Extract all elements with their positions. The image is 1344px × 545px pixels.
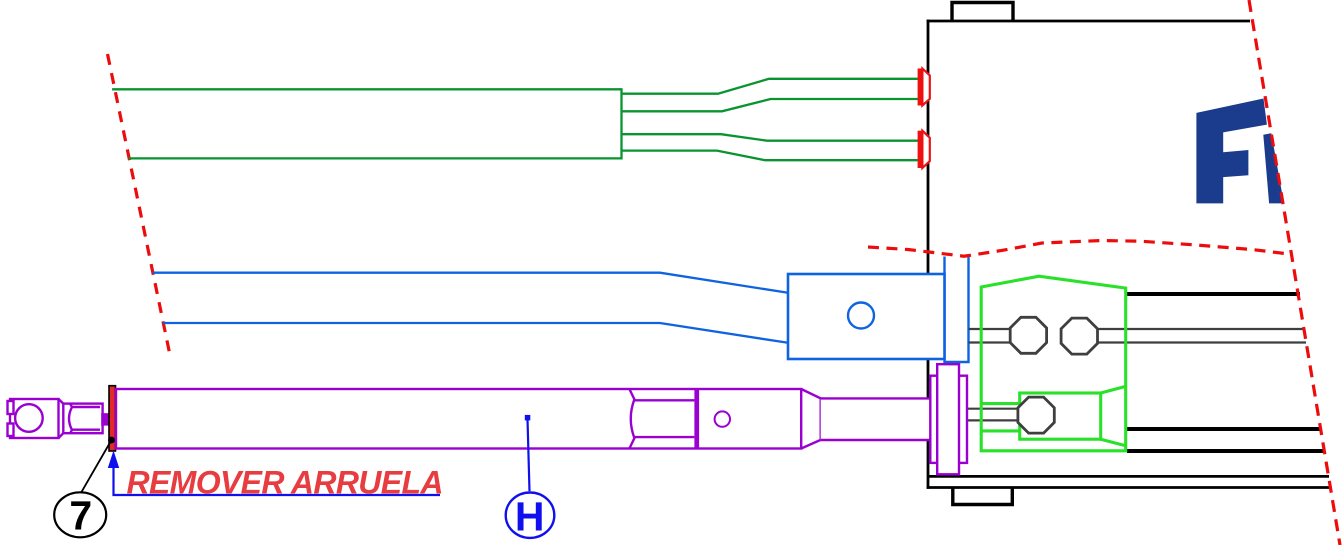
callout H leader dot (525, 415, 531, 421)
green harness cable body (112, 88, 621, 159)
green inner box (1020, 393, 1101, 439)
green funnel top (1101, 386, 1126, 393)
green channel line top (981, 402, 1020, 405)
taper section (801, 389, 821, 449)
svg-text:H: H (515, 493, 545, 539)
drive flange rear (930, 376, 967, 463)
wrench neck section (59, 399, 103, 438)
remover arruela arrow (108, 451, 119, 469)
FPT logo partial second letter (1263, 133, 1284, 203)
bottom mounting tab (953, 488, 1013, 505)
callout H balloon (506, 493, 555, 538)
top mounting tab (952, 3, 1013, 22)
green bracket outline (981, 276, 1125, 451)
wrench square drive stub (101, 413, 109, 425)
torque wrench clevis head (8, 399, 59, 438)
callout 7 leader dot (108, 437, 115, 444)
drive flange front (937, 364, 959, 474)
wrench main body (116, 389, 801, 449)
wire 2 (622, 99, 920, 111)
wire 3 (622, 134, 920, 141)
green channel line bottom (981, 429, 1020, 432)
blue cable top line (153, 273, 788, 293)
hole in blue box (848, 303, 874, 329)
blue cable bottom line (163, 323, 788, 343)
svg-text:7: 7 (69, 493, 92, 539)
left break line (red dashed cut line) (108, 54, 171, 357)
thick purple band (694, 389, 699, 449)
blue plate bracket (945, 255, 969, 363)
green funnel bottom (1101, 439, 1126, 446)
middle break line (red dashed wavy) (868, 241, 1292, 257)
connector terminal 1 (red) (918, 69, 930, 106)
gray rod upper (left segment) (969, 329, 1307, 343)
scale window lines (634, 399, 694, 401)
callout H leader line (528, 419, 530, 491)
callout 7 balloon (54, 492, 106, 537)
remover arruela leader (114, 466, 441, 495)
body brace curve (629, 389, 634, 449)
internal thick line middle (1127, 427, 1320, 431)
hex nut 1 (1010, 317, 1046, 353)
wire 4 (622, 151, 920, 161)
blue junction box (788, 274, 945, 359)
wire 1 (622, 79, 920, 94)
right break line (red dashed cut line) (1249, 0, 1340, 545)
red washer (arruela) (109, 386, 116, 451)
hex nut 2 (1061, 318, 1097, 354)
callout 7 leader line (81, 440, 112, 493)
hex nut 3 (1018, 397, 1054, 433)
pin hole (715, 411, 730, 426)
svg-text:REMOVER ARRUELA: REMOVER ARRUELA (127, 465, 444, 501)
black box (ECU) outline (927, 20, 1331, 489)
connector terminal 2 (red) (918, 131, 930, 168)
gray rod lower (966, 409, 1020, 421)
internal thick line top (1127, 292, 1300, 296)
wrench shaft (821, 398, 938, 440)
FPT logo letter F (1196, 99, 1267, 204)
internal thick line lower (1127, 449, 1326, 453)
